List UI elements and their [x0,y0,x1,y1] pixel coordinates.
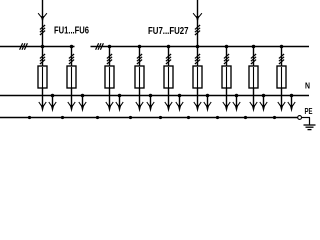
svg-text:N: N [305,82,310,91]
svg-text:FU1...FU6: FU1...FU6 [54,26,89,37]
svg-text:PE: PE [305,107,313,116]
svg-text:FU7...FU27: FU7...FU27 [148,26,189,37]
